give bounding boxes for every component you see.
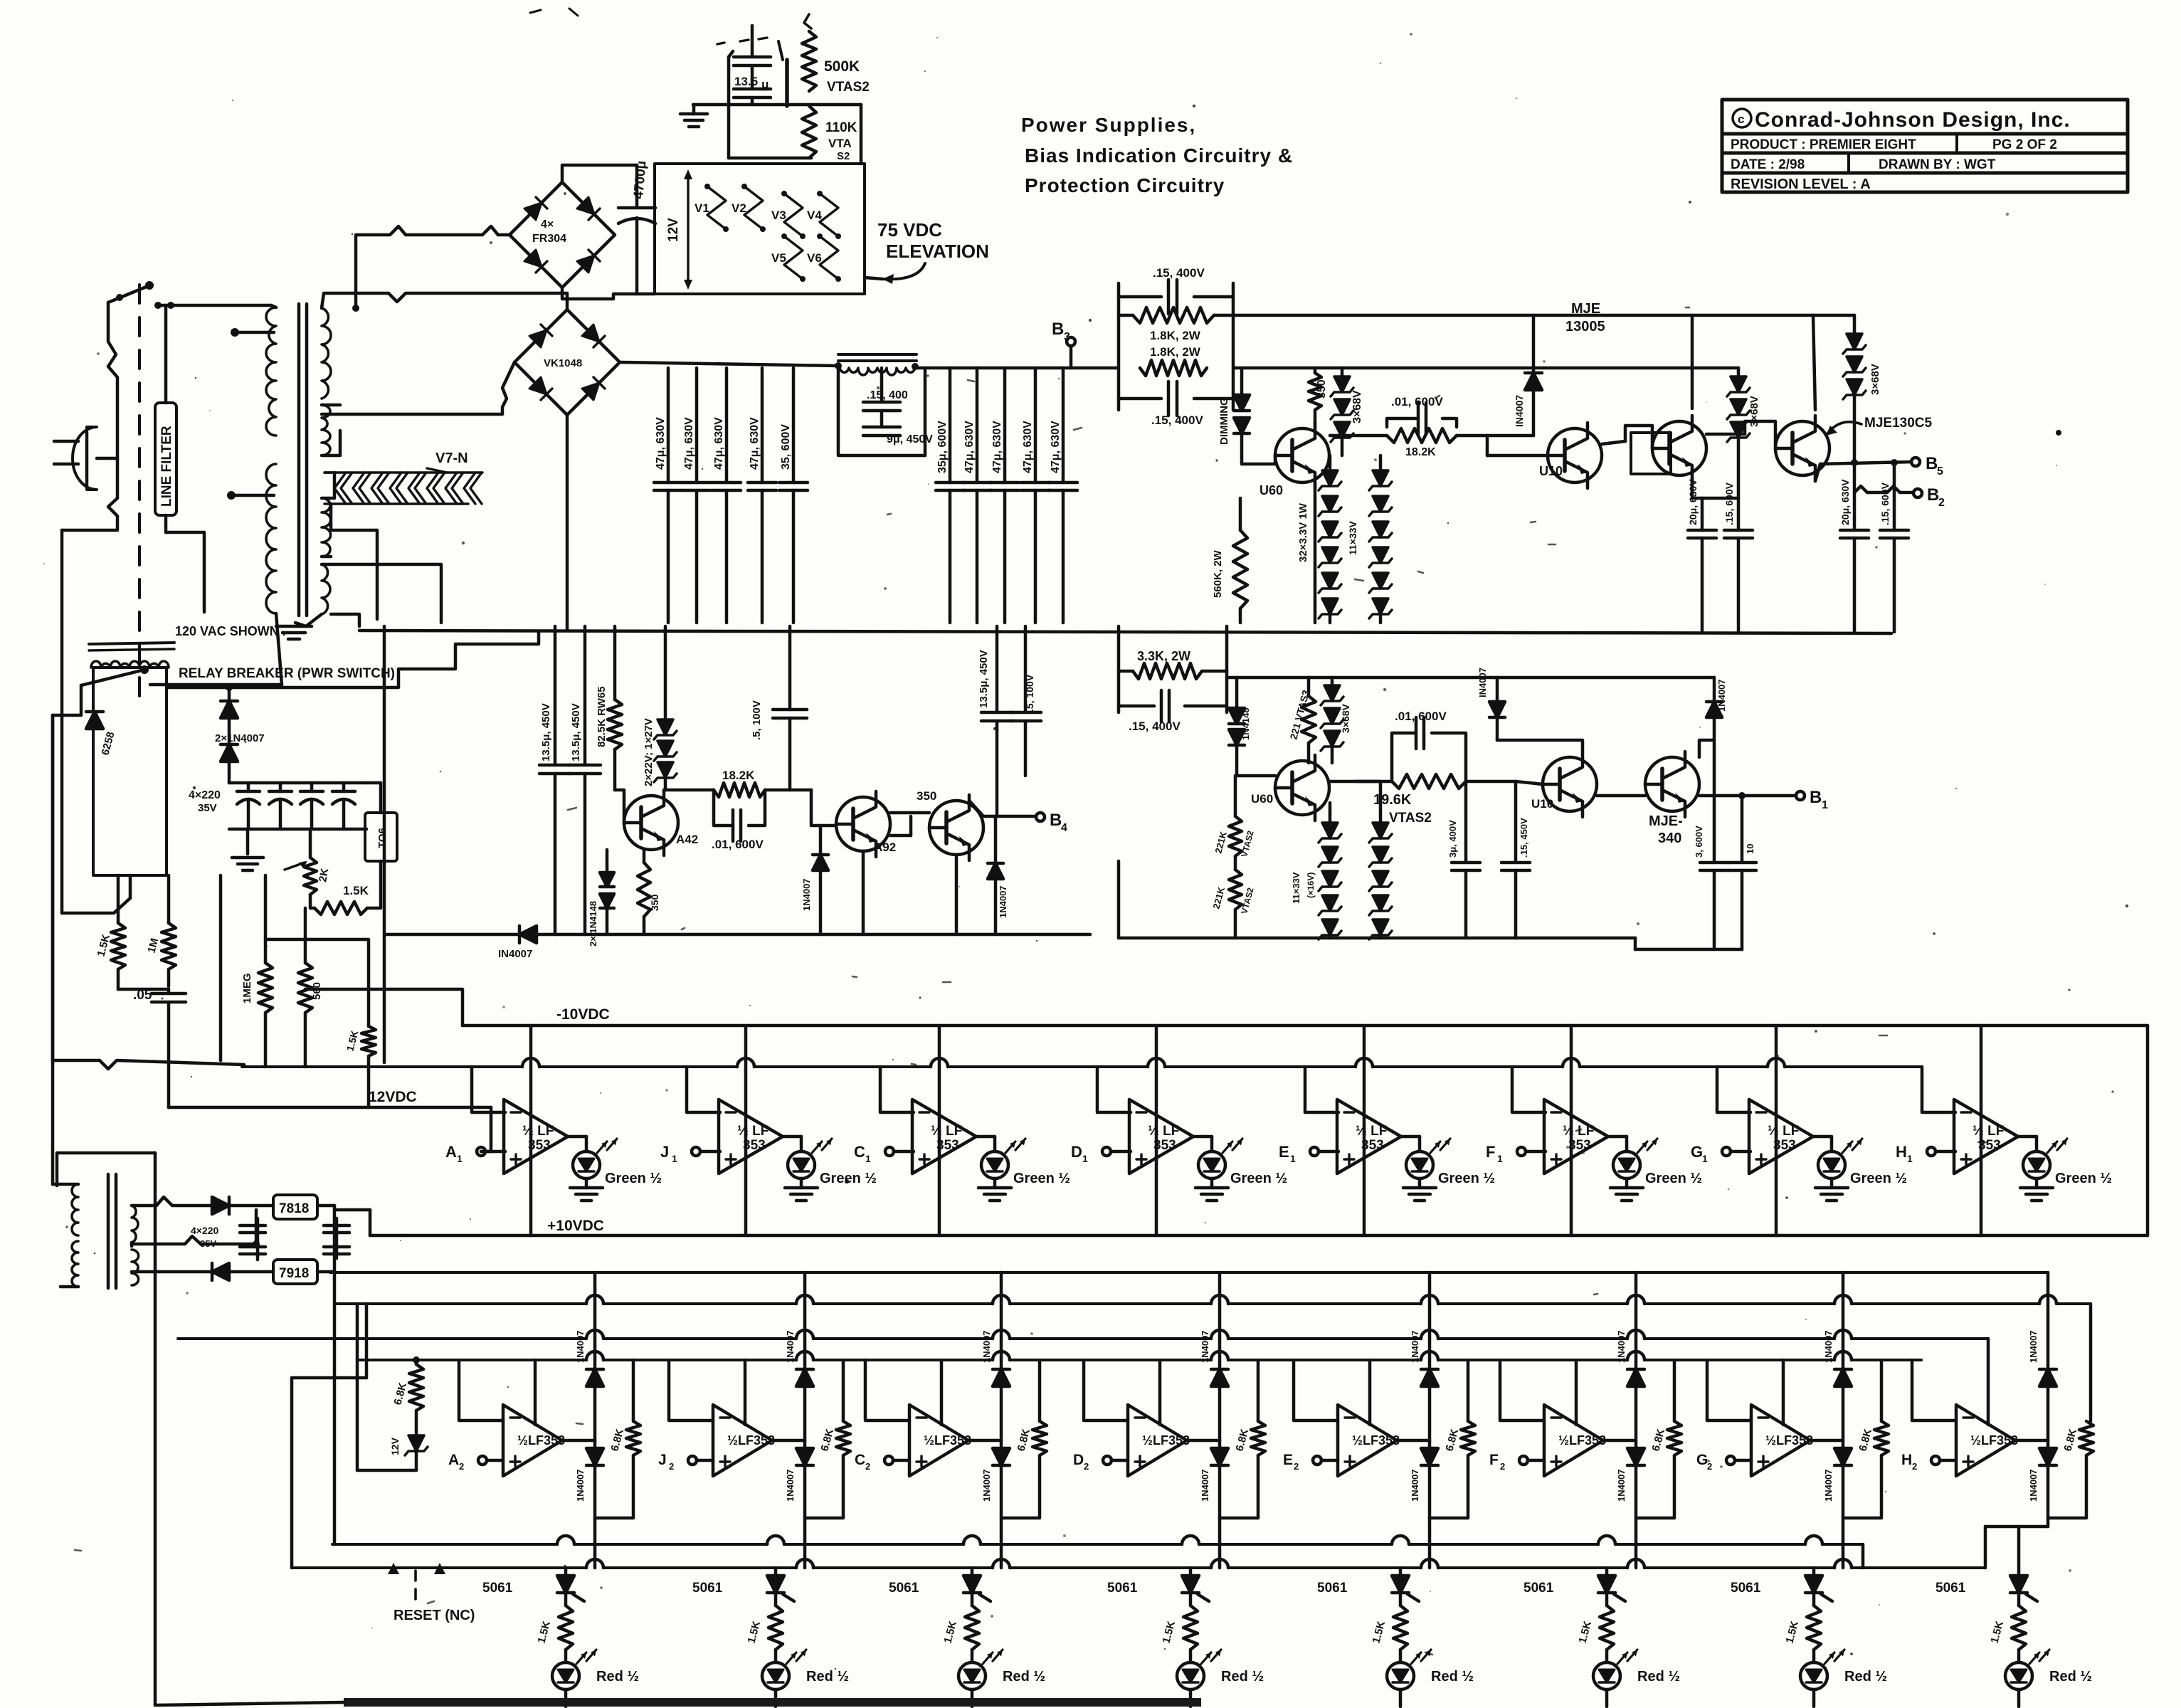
svg-text:5061: 5061: [1936, 1581, 1966, 1596]
svg-text:5061: 5061: [1523, 1581, 1554, 1596]
svg-text:1N4007: 1N4007: [801, 878, 812, 911]
svg-text:1N4007: 1N4007: [1616, 1469, 1627, 1502]
svg-text:12VDC: 12VDC: [369, 1089, 417, 1105]
svg-text:.15, 600V: .15, 600V: [1879, 482, 1891, 525]
svg-text:DATE : 2/98: DATE : 2/98: [1731, 157, 1805, 172]
svg-text:32×3.3V 1W: 32×3.3V 1W: [1297, 502, 1309, 562]
svg-text:V3: V3: [771, 209, 786, 222]
svg-text:13005: 13005: [1565, 319, 1605, 334]
svg-text:VTAS2: VTAS2: [827, 80, 870, 95]
svg-text:½ LF: ½ LF: [1563, 1124, 1594, 1139]
svg-text:DIMMING: DIMMING: [1218, 397, 1230, 445]
svg-text:1N4148: 1N4148: [1240, 707, 1251, 740]
svg-text:J: J: [660, 1143, 669, 1161]
svg-text:B: B: [1810, 788, 1822, 807]
svg-text:1: 1: [1082, 1153, 1088, 1164]
svg-text:Power Supplies,: Power Supplies,: [1021, 114, 1196, 136]
svg-text:3×68V: 3×68V: [1869, 364, 1881, 395]
svg-text:353: 353: [1773, 1138, 1796, 1153]
svg-text:Protection Circuitry: Protection Circuitry: [1025, 174, 1225, 196]
svg-text:Green ½: Green ½: [1013, 1171, 1070, 1186]
svg-text:82.5K RW65: 82.5K RW65: [596, 686, 608, 747]
svg-text:13.5μ, 450V: 13.5μ, 450V: [570, 703, 582, 761]
svg-text:A92: A92: [874, 840, 896, 854]
svg-text:353: 353: [1361, 1138, 1384, 1153]
svg-text:7818: 7818: [279, 1201, 309, 1216]
svg-text:340: 340: [1658, 831, 1681, 846]
svg-text:47μ, 630V: 47μ, 630V: [1050, 421, 1062, 473]
svg-text:47μ, 630V: 47μ, 630V: [683, 417, 695, 470]
svg-text:120 VAC SHOWN .: 120 VAC SHOWN .: [175, 624, 286, 638]
svg-text:½ LF: ½ LF: [931, 1124, 962, 1139]
svg-text:.5, 100V: .5, 100V: [1024, 674, 1035, 712]
svg-text:2: 2: [865, 1461, 870, 1472]
svg-text:(×16V): (×16V): [1306, 873, 1316, 898]
svg-text:.15, 400: .15, 400: [867, 389, 908, 401]
svg-text:1N4007: 1N4007: [998, 885, 1008, 918]
svg-text:47μ, 630V: 47μ, 630V: [1022, 421, 1034, 473]
svg-text:75 VDC: 75 VDC: [877, 219, 942, 241]
svg-text:3×68V: 3×68V: [1351, 390, 1363, 423]
svg-text:1N4007: 1N4007: [1410, 1469, 1420, 1502]
svg-text:1N4007: 1N4007: [1823, 1330, 1834, 1363]
svg-text:1N4007: 1N4007: [575, 1330, 586, 1363]
svg-text:½LF353: ½LF353: [1352, 1433, 1400, 1448]
svg-text:4×: 4×: [541, 218, 554, 231]
svg-text:Red ½: Red ½: [806, 1669, 849, 1685]
svg-text:+10VDC: +10VDC: [547, 1218, 604, 1234]
svg-text:2: 2: [1938, 497, 1945, 509]
svg-text:μ: μ: [761, 78, 769, 91]
svg-text:5: 5: [1937, 465, 1943, 478]
svg-text:Bias Indication Circuitry &: Bias Indication Circuitry &: [1025, 144, 1293, 167]
svg-text:½LF353: ½LF353: [924, 1433, 971, 1448]
svg-text:H: H: [1896, 1143, 1907, 1161]
svg-text:Green ½: Green ½: [605, 1171, 662, 1186]
svg-text:Green ½: Green ½: [1645, 1171, 1702, 1186]
svg-text:1: 1: [1907, 1153, 1913, 1164]
svg-text:3: 3: [1064, 331, 1070, 343]
svg-text:½ LF: ½ LF: [1768, 1124, 1799, 1139]
svg-text:500K: 500K: [824, 58, 860, 75]
svg-text:47μ, 630V: 47μ, 630V: [991, 421, 1003, 473]
svg-text:18.2K: 18.2K: [1405, 446, 1436, 458]
svg-text:Red ½: Red ½: [1431, 1669, 1474, 1685]
svg-text:MJE-: MJE-: [1649, 813, 1683, 829]
svg-text:B: B: [1927, 485, 1939, 505]
svg-text:Red ½: Red ½: [1221, 1669, 1264, 1685]
svg-text:47μ, 630V: 47μ, 630V: [655, 417, 667, 470]
svg-text:DRAWN BY : WGT: DRAWN BY : WGT: [1879, 157, 1996, 172]
svg-text:B: B: [1050, 811, 1062, 830]
svg-text:V2: V2: [732, 201, 746, 215]
svg-text:Red ½: Red ½: [596, 1669, 639, 1685]
svg-text:.15, 600V: .15, 600V: [1723, 482, 1735, 525]
svg-text:1MEG: 1MEG: [241, 973, 253, 1003]
svg-text:.05: .05: [133, 988, 152, 1003]
svg-text:1: 1: [1702, 1153, 1708, 1164]
svg-text:D: D: [1073, 1452, 1084, 1468]
svg-text:2: 2: [1500, 1461, 1505, 1472]
svg-text:½LF353: ½LF353: [1558, 1433, 1606, 1448]
svg-text:Red ½: Red ½: [1003, 1669, 1045, 1685]
svg-text:½LF353: ½LF353: [1970, 1433, 2018, 1448]
svg-text:Red ½: Red ½: [1637, 1669, 1680, 1685]
svg-text:Conrad-Johnson Design, Inc.: Conrad-Johnson Design, Inc.: [1755, 108, 2071, 132]
svg-text:9μ, 450V: 9μ, 450V: [887, 433, 933, 446]
svg-text:G: G: [1696, 1452, 1708, 1468]
svg-text:TO6: TO6: [376, 828, 389, 848]
svg-text:35V: 35V: [198, 802, 217, 814]
svg-text:350: 350: [649, 894, 660, 911]
svg-text:2: 2: [669, 1461, 674, 1472]
svg-text:C: C: [854, 1143, 865, 1161]
svg-text:MJE130C5: MJE130C5: [1864, 416, 1932, 431]
svg-text:V6: V6: [807, 251, 822, 265]
svg-text:1N4007: 1N4007: [785, 1330, 796, 1363]
svg-text:35V: 35V: [200, 1238, 216, 1249]
svg-text:1N4007: 1N4007: [981, 1469, 992, 1502]
svg-text:3, 600V: 3, 600V: [1694, 826, 1704, 858]
svg-text:5061: 5061: [1731, 1581, 1761, 1596]
svg-text:ELEVATION: ELEVATION: [886, 241, 989, 262]
svg-text:Red ½: Red ½: [2049, 1669, 2092, 1685]
svg-text:D: D: [1071, 1143, 1082, 1161]
svg-text:IN4007: IN4007: [1477, 668, 1488, 697]
svg-text:13.5: 13.5: [734, 75, 758, 88]
svg-text:VTA: VTA: [828, 137, 852, 150]
svg-text:E: E: [1279, 1143, 1289, 1161]
svg-text:U10: U10: [1539, 464, 1563, 478]
svg-text:5061: 5061: [482, 1581, 513, 1596]
svg-text:2: 2: [459, 1461, 464, 1472]
svg-text:20μ, 630V: 20μ, 630V: [1839, 479, 1851, 525]
svg-text:1N4007: 1N4007: [1823, 1469, 1834, 1502]
svg-text:11×33V: 11×33V: [1347, 520, 1358, 555]
svg-text:E: E: [1283, 1452, 1293, 1468]
svg-text:.01, 600V: .01, 600V: [712, 838, 764, 851]
svg-text:½LF353: ½LF353: [517, 1433, 565, 1448]
svg-text:Green ½: Green ½: [2055, 1171, 2112, 1186]
svg-text:353: 353: [743, 1138, 766, 1153]
svg-text:2: 2: [1084, 1461, 1089, 1472]
svg-text:35μ, 600V: 35μ, 600V: [936, 421, 949, 473]
svg-text:1N4007: 1N4007: [1716, 679, 1727, 712]
svg-text:RELAY BREAKER (PWR SWITCH): RELAY BREAKER (PWR SWITCH): [179, 666, 395, 681]
svg-text:7918: 7918: [279, 1266, 309, 1281]
svg-text:-10VDC: -10VDC: [556, 1006, 610, 1023]
svg-text:RESET (NC): RESET (NC): [394, 1608, 475, 1623]
svg-text:½LF353: ½LF353: [727, 1433, 775, 1448]
svg-text:2×1N4007: 2×1N4007: [215, 732, 265, 744]
svg-text:353: 353: [1568, 1138, 1591, 1153]
svg-text:Green ½: Green ½: [1850, 1171, 1907, 1186]
svg-text:1.5K: 1.5K: [343, 884, 369, 897]
svg-text:3×68V: 3×68V: [1748, 396, 1760, 427]
svg-text:353: 353: [936, 1138, 959, 1153]
svg-text:1N4007: 1N4007: [1410, 1330, 1420, 1363]
svg-text:2: 2: [1912, 1461, 1917, 1472]
svg-text:1.8K, 2W: 1.8K, 2W: [1150, 345, 1201, 359]
svg-text:3×68V: 3×68V: [1340, 703, 1351, 733]
svg-text:12V: 12V: [389, 1437, 401, 1455]
svg-text:2K: 2K: [317, 868, 331, 883]
svg-text:B: B: [1926, 454, 1938, 473]
svg-text:VTAS2: VTAS2: [1389, 811, 1432, 826]
svg-text:11×33V: 11×33V: [1291, 872, 1301, 904]
svg-text:3.3K, 2W: 3.3K, 2W: [1137, 649, 1190, 663]
svg-text:VK1048: VK1048: [544, 357, 582, 369]
svg-text:G: G: [1691, 1143, 1703, 1161]
svg-text:½ LF: ½ LF: [1356, 1124, 1387, 1139]
svg-text:Red ½: Red ½: [1844, 1669, 1887, 1685]
svg-text:1: 1: [457, 1153, 463, 1164]
svg-text:12V: 12V: [666, 218, 681, 242]
svg-text:560: 560: [311, 982, 323, 1000]
svg-text:353: 353: [1153, 1138, 1176, 1153]
svg-text:1N4007: 1N4007: [1200, 1469, 1210, 1502]
svg-text:350: 350: [1316, 379, 1328, 399]
svg-text:F: F: [1489, 1452, 1499, 1468]
svg-text:.15, 400V: .15, 400V: [1129, 719, 1181, 733]
svg-text:S2: S2: [837, 150, 850, 162]
svg-text:47μ, 630V: 47μ, 630V: [713, 417, 725, 470]
svg-text:F: F: [1486, 1143, 1495, 1161]
svg-text:5061: 5061: [1107, 1581, 1138, 1596]
svg-text:V5: V5: [771, 251, 786, 265]
svg-text:1N4007: 1N4007: [1616, 1330, 1627, 1363]
svg-text:2: 2: [1707, 1461, 1712, 1472]
svg-text:.15, 400V: .15, 400V: [1151, 413, 1203, 427]
svg-text:.15, 400V: .15, 400V: [1153, 266, 1205, 280]
svg-text:½ LF: ½ LF: [522, 1124, 554, 1139]
svg-text:J: J: [658, 1452, 667, 1468]
svg-text:PRODUCT : PREMIER EIGHT: PRODUCT : PREMIER EIGHT: [1731, 137, 1916, 152]
svg-text:FR304: FR304: [532, 233, 566, 245]
svg-text:V7-N: V7-N: [435, 450, 468, 466]
svg-text:1: 1: [1290, 1153, 1296, 1164]
svg-text:47μ, 630V: 47μ, 630V: [963, 421, 976, 473]
svg-text:4×220: 4×220: [189, 789, 221, 801]
svg-text:Green ½: Green ½: [820, 1171, 877, 1186]
svg-text:13.5μ, 450V: 13.5μ, 450V: [540, 703, 552, 761]
svg-text:½ LF: ½ LF: [1973, 1124, 2004, 1139]
svg-text:1: 1: [672, 1153, 677, 1164]
svg-text:.5, 100V: .5, 100V: [751, 700, 763, 740]
svg-text:5061: 5061: [692, 1581, 723, 1596]
svg-text:U10: U10: [1531, 797, 1553, 811]
svg-text:½ LF: ½ LF: [737, 1124, 769, 1139]
svg-text:A: A: [445, 1143, 457, 1161]
svg-text:47μ, 630V: 47μ, 630V: [749, 417, 761, 470]
svg-text:1.8K, 2W: 1.8K, 2W: [1150, 329, 1201, 342]
svg-text:1: 1: [1497, 1153, 1503, 1164]
svg-text:IN4007: IN4007: [1514, 395, 1525, 427]
svg-text:B: B: [1052, 320, 1064, 339]
svg-text:c: c: [1738, 112, 1744, 126]
svg-text:1N4007: 1N4007: [2028, 1330, 2039, 1363]
svg-text:353: 353: [528, 1138, 551, 1153]
svg-text:4: 4: [1061, 822, 1067, 834]
svg-text:V4: V4: [807, 209, 822, 222]
svg-text:A42: A42: [676, 833, 698, 846]
svg-text:18.2K: 18.2K: [722, 769, 755, 782]
svg-text:REVISION LEVEL : A: REVISION LEVEL : A: [1731, 176, 1871, 192]
svg-text:1N4007: 1N4007: [2028, 1469, 2039, 1502]
svg-text:Green ½: Green ½: [1230, 1171, 1287, 1186]
svg-text:350: 350: [917, 789, 936, 803]
svg-text:1: 1: [865, 1153, 871, 1164]
svg-text:U60: U60: [1260, 483, 1283, 497]
svg-text:1N4007: 1N4007: [981, 1330, 992, 1363]
svg-text:2× 1N4148: 2× 1N4148: [588, 901, 598, 947]
svg-text:110K: 110K: [825, 120, 857, 135]
svg-text:5061: 5061: [889, 1581, 919, 1596]
svg-text:1N4007: 1N4007: [575, 1469, 586, 1502]
svg-text:3μ, 400V: 3μ, 400V: [1447, 820, 1458, 858]
svg-text:MJE: MJE: [1571, 301, 1600, 317]
svg-text:2: 2: [1294, 1461, 1299, 1472]
svg-text:Green ½: Green ½: [1438, 1171, 1495, 1186]
svg-text:PG 2 OF 2: PG 2 OF 2: [1992, 137, 2057, 152]
svg-text:1N4007: 1N4007: [785, 1469, 796, 1502]
svg-text:4×220: 4×220: [191, 1225, 219, 1236]
svg-text:C: C: [855, 1452, 865, 1468]
svg-text:1N4007: 1N4007: [1200, 1330, 1210, 1363]
svg-text:½LF353: ½LF353: [1765, 1433, 1813, 1448]
svg-text:19.6K: 19.6K: [1373, 792, 1412, 808]
svg-text:H: H: [1901, 1452, 1912, 1468]
svg-text:½ LF: ½ LF: [1148, 1124, 1179, 1139]
svg-text:353: 353: [1978, 1138, 2001, 1153]
svg-text:.15, 450V: .15, 450V: [1519, 818, 1529, 858]
svg-text:LINE FILTER: LINE FILTER: [159, 426, 174, 507]
svg-text:35, 600V: 35, 600V: [780, 424, 792, 470]
svg-text:10: 10: [1745, 844, 1755, 854]
svg-text:IN4007: IN4007: [498, 948, 532, 960]
svg-text:1: 1: [1822, 799, 1828, 811]
svg-text:½LF353: ½LF353: [1142, 1433, 1190, 1448]
svg-text:13.5μ, 450V: 13.5μ, 450V: [978, 650, 990, 708]
svg-text:2×22V; 1×27V: 2×22V; 1×27V: [643, 718, 655, 786]
svg-text:V1: V1: [695, 201, 709, 215]
svg-text:560K, 2W: 560K, 2W: [1212, 549, 1224, 598]
svg-text:A: A: [448, 1452, 459, 1468]
svg-text:U60: U60: [1251, 792, 1273, 806]
svg-text:5061: 5061: [1317, 1581, 1348, 1596]
svg-text:.01, 600V: .01, 600V: [1395, 710, 1447, 723]
